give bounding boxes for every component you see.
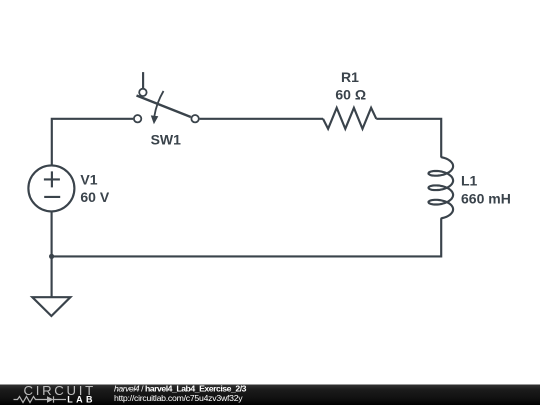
wire top-left: left rail top segment and top wire to switch left terminal bbox=[52, 119, 133, 166]
switch SW1 pivot stub wire bbox=[142, 72, 144, 88]
ground symbol bbox=[32, 297, 70, 316]
switch SW1 actuation arrow arc bbox=[154, 91, 163, 116]
wire: resistor R1 right lead to top-right corner down to inductor L1 top bbox=[376, 119, 441, 157]
svg-text:http://circuitlab.com/c75u4zv3: http://circuitlab.com/c75u4zv3wf32y bbox=[114, 393, 243, 403]
svg-text:660 mH: 660 mH bbox=[461, 191, 511, 207]
svg-text:SW1: SW1 bbox=[151, 132, 182, 148]
svg-text:R1: R1 bbox=[341, 69, 359, 85]
svg-text:L1: L1 bbox=[461, 173, 478, 189]
CircuitLab logo diode triangle bbox=[47, 396, 54, 402]
voltage source V1 circle bbox=[28, 165, 74, 211]
resistor R1 zigzag body bbox=[323, 108, 376, 129]
inductor L1 coil bbox=[429, 157, 454, 219]
switch SW1 pivot circle bbox=[139, 89, 146, 96]
svg-text:60 V: 60 V bbox=[80, 189, 109, 205]
switch SW1 arrowhead bbox=[151, 115, 159, 124]
switch SW1 blade bbox=[137, 96, 191, 118]
junction node dot bbox=[49, 254, 54, 259]
switch SW1 right terminal circle bbox=[191, 115, 198, 122]
svg-text:V1: V1 bbox=[80, 172, 97, 188]
wire: V1 bottom to junction to ground bbox=[51, 212, 53, 298]
CircuitLab logo resistor squiggle and diode bbox=[14, 396, 67, 402]
wire: V1 top to left rail bbox=[51, 164, 53, 167]
V1 minus sign bbox=[44, 196, 60, 198]
svg-text:60 Ω: 60 Ω bbox=[335, 87, 366, 103]
V1 plus sign bbox=[44, 171, 60, 187]
switch SW1 left terminal circle bbox=[134, 115, 141, 122]
wire: switch right terminal to resistor R1 left lead bbox=[200, 118, 323, 120]
wire: inductor L1 bottom, right rail down, bottom wire to junction bbox=[52, 218, 442, 256]
svg-text:harvel4 / harvel4_Lab4_Exercis: harvel4 / harvel4_Lab4_Exercise_2/3 bbox=[114, 383, 247, 393]
svg-text:LAB: LAB bbox=[67, 394, 96, 404]
